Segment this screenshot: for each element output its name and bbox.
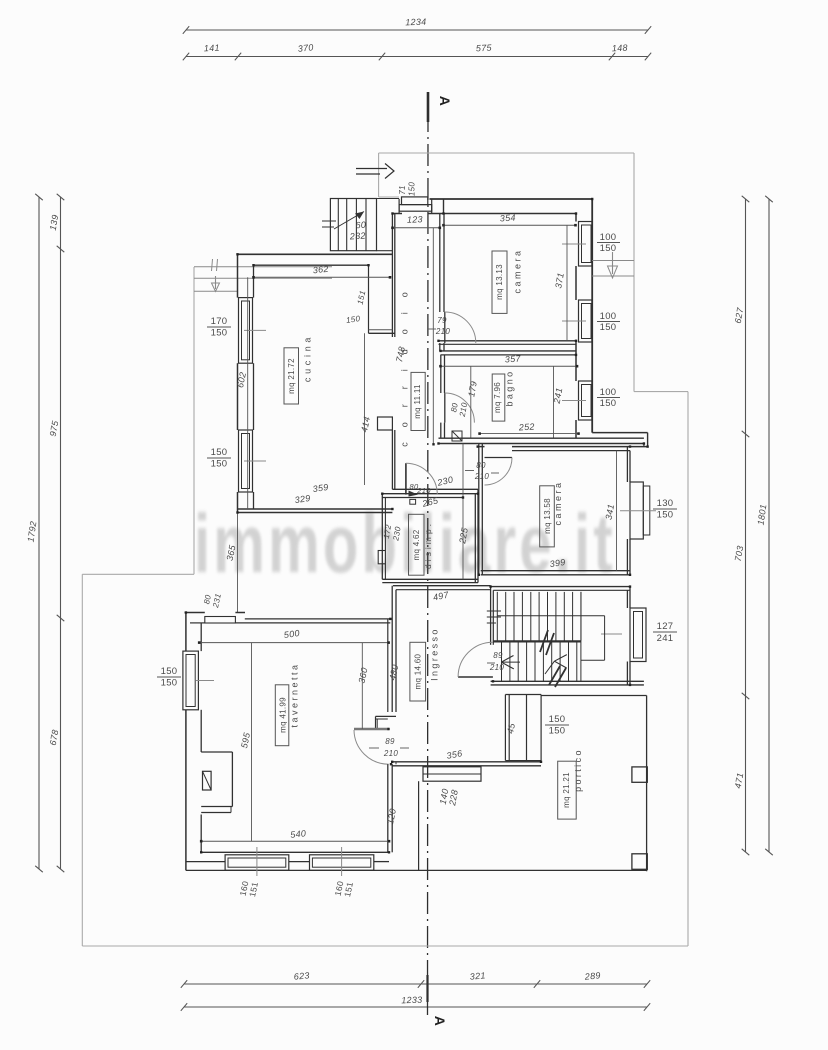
vent symbol bagno [452,431,462,441]
svg-text:170: 170 [211,316,228,327]
portico south edge [186,869,647,871]
dim line 357 bagno [439,365,578,368]
svg-text:1233: 1233 [401,995,423,1006]
window label 150/150 tavernetta [157,666,181,689]
svg-text:150: 150 [161,666,178,677]
wall bagno west [441,355,445,438]
svg-text:1234: 1234 [405,17,427,28]
dim line 360 tavernetta [361,643,363,729]
svg-text:414: 414 [359,416,372,434]
room box cucina [284,348,299,404]
svg-text:Ingresso: Ingresso [429,627,439,681]
wall ingresso north [393,586,491,590]
wall tavernetta west inner [200,623,202,852]
stairs well line h [497,615,604,617]
svg-text:A: A [437,96,453,106]
portico east edge [646,696,648,872]
stairs well line v2 [580,592,582,681]
portico pillar 2 [632,854,647,870]
svg-text:tavernetta: tavernetta [289,662,299,727]
svg-text:100: 100 [600,311,617,322]
svg-text:150: 150 [600,322,617,333]
portico pillar 1 [632,767,647,782]
wall passage stub [505,695,541,761]
svg-text:356: 356 [446,748,463,761]
downpipe arrow top-left [212,276,220,292]
wall camera2 west [479,444,483,575]
svg-text:mq 21.72: mq 21.72 [287,358,296,394]
property boundary entrance bottom [379,196,399,198]
door camera2 arc [485,458,513,486]
room box camera2 [540,486,555,547]
svg-text:703: 703 [733,545,746,562]
property boundary entrance left [378,153,380,197]
gronda line 3 top-left [194,290,237,292]
dim line 241 bagno [553,366,555,438]
svg-text:228: 228 [447,789,460,807]
svg-text:150: 150 [657,510,674,521]
window 100/150 bagno [562,381,592,420]
door ingresso-stairs leaf [458,676,493,678]
window label 100/150 (2) [597,311,620,333]
dim line 252 bagno [478,432,580,435]
outdoor stairs arrow [322,212,364,230]
door tavernetta leaf [354,728,389,731]
room box ingresso [410,642,426,701]
dimension line segments right (627/703/471) [742,196,750,855]
wall corridoio west line1 [391,214,393,490]
svg-text:80: 80 [476,461,486,470]
portico north edge [541,695,647,697]
dim line 365 [237,513,239,613]
wall north outer [430,198,593,200]
svg-text:371: 371 [553,272,566,289]
svg-text:252: 252 [518,421,536,432]
svg-text:151: 151 [342,881,355,898]
property boundary right upper [633,153,635,392]
gronda line 2 top-left [194,277,332,279]
property boundary west strip [193,267,195,574]
label 172/230 disimpegno [382,524,403,543]
wall disimpegno east [475,489,478,582]
wall camera1 south line1 [439,340,577,342]
wall camera2 north outer [478,446,648,448]
door label 89 tavernetta [369,737,409,748]
svg-text:975: 975 [48,419,61,437]
svg-text:360: 360 [357,667,370,685]
svg-text:241: 241 [552,387,565,405]
svg-text:141: 141 [204,43,220,54]
svg-text:321: 321 [469,970,486,981]
dim line 602 cucina [247,277,249,509]
svg-text:150: 150 [408,182,417,196]
svg-text:602: 602 [235,371,248,389]
door tavernetta 80/231 threshold [205,617,236,624]
wall cucina south line2 [238,512,393,514]
wall jamb porch right [431,199,433,214]
entrance arrow [356,164,394,179]
svg-text:mq 21.21: mq 21.21 [562,772,571,808]
window 160/151 tav south 2 [310,847,374,876]
door camera2 leaf [485,457,513,459]
door disimpegno hinge mark [409,491,419,497]
stairs arrow up-left [501,656,520,669]
svg-text:230: 230 [435,474,454,488]
svg-text:148: 148 [612,43,628,54]
wall bagno SE jamb [644,433,648,447]
window label 150/150 cucina [207,447,231,470]
svg-text:150: 150 [549,714,566,725]
room box tavernetta [275,685,289,746]
stairs arrow up-right [545,655,567,674]
door tavernetta jog [376,716,397,728]
wall bagno south outer [592,432,647,434]
svg-text:mq 13.58: mq 13.58 [543,498,552,534]
svg-text:540: 540 [290,828,307,840]
window 100/150 camera1 lower [562,300,592,342]
svg-text:595: 595 [239,731,252,749]
wall stairs east [627,587,630,685]
wall tavernetta north inner1 [245,618,390,620]
dim line 540 tavernetta [200,840,390,843]
wall ingresso west lower [388,762,396,853]
window 130/150 camera2 [620,482,656,539]
stairs upper flight treads [497,592,581,641]
svg-text:79: 79 [437,316,447,325]
svg-text:231: 231 [211,593,223,610]
wall camera1 south line2 [439,343,577,345]
dim line 354 camera1 [442,224,577,227]
wall east inner [575,214,577,439]
svg-text:500: 500 [283,628,300,640]
wall corridoio west line2 [394,214,396,490]
wall bagno north line2 [441,354,577,356]
flue bump cucina SE [378,417,393,430]
dim line 595 tavernetta [251,643,253,842]
svg-text:disimp.: disimp. [423,521,433,569]
svg-text:575: 575 [476,43,493,54]
svg-text:100: 100 [600,387,617,398]
svg-text:151: 151 [247,881,260,898]
svg-text:370: 370 [297,42,314,54]
dim line 414 [364,333,366,485]
svg-text:mq 14.60: mq 14.60 [414,653,423,689]
dim line 748 corridoio [432,228,434,444]
svg-text:210: 210 [474,472,489,481]
dim line 371 camera1 [566,225,568,341]
svg-text:130: 130 [657,498,674,509]
window label 170/150 [207,316,231,339]
svg-text:150: 150 [211,447,228,458]
wall disimpegno west notch [378,551,385,564]
svg-text:150: 150 [549,726,566,737]
svg-text:127: 127 [657,621,674,632]
wall corridoio east line2 [443,214,445,352]
svg-text:mq 7.96: mq 7.96 [493,382,502,413]
pipe mark top-left [212,259,218,271]
downpipe arrow east [608,252,618,278]
property boundary top [379,152,634,154]
svg-text:89: 89 [385,737,395,746]
svg-text:139: 139 [48,214,61,231]
stairs level marks [487,611,501,623]
wall cucina west inner [253,265,255,509]
svg-text:150: 150 [600,243,617,254]
svg-text:210: 210 [458,402,470,419]
svg-text:mq 41.99: mq 41.99 [279,697,288,733]
room box corridoio [411,372,425,430]
wall junction dots [185,198,649,854]
section line thick end bottom [426,975,428,1002]
wall disimpegno north line2 [382,493,478,495]
entrance porch steps [399,197,432,211]
dimension line segments bottom (623/321/289) [181,980,650,988]
door ingresso-stairs arc [458,642,493,677]
property boundary left [81,574,83,946]
svg-text:354: 354 [500,212,517,223]
svg-text:623: 623 [293,970,310,981]
wall disimpegno north line3 [382,497,463,499]
wall cucina south line1 [238,508,393,510]
window label 160/151 (2) [333,880,355,898]
svg-text:150: 150 [161,678,178,689]
window label 130/150 [653,498,677,521]
window 160/151 tav south 1 [225,847,289,876]
gronda line east 2 [592,275,634,277]
room box portico [558,761,577,819]
stairs mid line [493,640,581,642]
window 150/150 tavernetta [183,651,214,710]
svg-text:471: 471 [733,772,746,789]
door camera2 label 80 [465,461,486,471]
stairs break marks lower [549,666,566,687]
window 127/241 stairs [601,608,646,662]
svg-text:100: 100 [600,232,617,243]
svg-text:45: 45 [505,721,517,734]
svg-text:mq 11.11: mq 11.11 [413,384,422,419]
gronda line 1 top-left [194,266,332,268]
wall ingresso south [392,762,541,766]
wall tavernetta south outer [186,861,389,863]
wall tavernetta west outer [185,613,187,871]
svg-text:480: 480 [387,664,400,682]
dim line 500 tavernetta [198,641,390,644]
wall north inner east of door [428,213,577,215]
door camera1 leaf [444,312,446,343]
dimension line segments top (141/370/575/148) [183,53,651,61]
svg-text:151: 151 [356,290,368,306]
svg-text:60: 60 [355,220,366,231]
wall cucina west outer [237,254,239,512]
wall tavernetta south inner [201,851,389,853]
dimension line total 1233 (bottom) [181,1003,650,1011]
property boundary step [634,391,688,393]
property boundary left step [82,573,194,575]
wall jamb porch left [398,199,400,214]
stairs well line v [604,616,606,661]
svg-text:150: 150 [211,459,228,470]
room box bagno [492,374,505,421]
wall stairs west [491,587,494,645]
svg-text:portico: portico [573,748,583,792]
wall bagno north line1 [441,350,577,352]
dim line 123 corridoio [391,227,441,230]
svg-text:362: 362 [312,264,329,276]
wall tavernetta north inner2 [190,622,390,624]
room box disimpegno [409,514,425,575]
svg-text:mq 4.62: mq 4.62 [412,529,421,560]
stairs well line h2 [581,659,605,661]
gronda line east 1 [592,260,634,262]
svg-text:123: 123 [407,214,423,225]
stairs break marks upper [540,630,554,655]
ingresso entry step [423,767,481,781]
dimension line segments left (139/975/678) [57,194,65,872]
svg-text:71: 71 [398,185,407,195]
svg-text:89: 89 [493,651,503,660]
window 150/150 cucina [239,430,267,492]
wall camera2 south [481,571,630,575]
svg-text:mq 13.13: mq 13.13 [495,264,504,300]
wall stairs south [491,681,644,685]
svg-text:150: 150 [600,398,617,409]
property boundary bottom [82,945,688,947]
svg-text:678: 678 [48,729,61,746]
svg-text:1792: 1792 [26,520,39,542]
svg-text:289: 289 [583,970,601,981]
svg-text:150: 150 [345,314,361,325]
door tavernetta arc [354,730,389,764]
property boundary right lower [687,392,689,946]
fireplace niche [201,752,232,813]
window 100/150 camera1 upper [562,222,592,267]
wall camera2 north inner [512,450,630,452]
svg-text:150: 150 [211,328,228,339]
wall jamb camera NW [443,199,445,214]
wall cucina north inner [254,264,369,266]
svg-text:179: 179 [466,380,479,397]
window 170/150 cucina [239,298,267,364]
wall east outer [591,199,593,433]
door corridoio-disimpegno leaf [405,463,407,494]
window label 100/150 (1) [597,232,620,254]
svg-text:232: 232 [349,230,367,241]
svg-text:camera: camera [513,248,523,293]
svg-text:cucina: cucina [303,334,313,382]
svg-text:bagno: bagno [505,369,515,406]
closet cucina [369,265,395,333]
dim line 341 camera2 [616,451,618,571]
door label 210 stairs [487,663,504,672]
wall disimpegno south [382,579,478,582]
outdoor stairs to entrance [330,199,399,251]
window label 127/241 [653,621,677,644]
wall bagno south line2 [439,443,644,445]
wall north inner west of door [393,213,403,215]
small rect disimpegno [410,499,416,504]
wall tavernetta north outer [185,612,245,614]
room box camera1 [492,251,507,313]
wall cucina north outer [237,253,393,255]
svg-text:241: 241 [657,633,674,644]
door bagno arc [445,393,475,423]
chimney symbol [203,771,212,790]
wall disimpegno north line1 [392,488,478,490]
wall ingresso west upper [388,586,396,712]
section line A-A (dash-dot) [427,110,430,1015]
dimension line total 1801 (right) [765,196,773,855]
svg-text:210: 210 [416,486,431,495]
dimension line total 1792 (left) [35,194,43,872]
wall disimpegno west [382,494,385,580]
dim line 179 bagno [470,366,472,438]
svg-text:359: 359 [312,482,329,494]
portico west edge [418,781,420,870]
door camera2 label 210 [474,472,499,481]
svg-text:357: 357 [505,353,522,364]
window label 150/150 portico [545,714,569,737]
door camera1 label 210 [428,327,450,336]
window label 160/151 (1) [238,880,260,898]
svg-text:120: 120 [385,808,398,826]
dim line 362 cucina [252,276,391,279]
svg-text:A: A [432,1016,448,1026]
wall stairs north [491,587,630,591]
svg-text:497: 497 [432,589,450,602]
svg-text:210: 210 [435,327,450,336]
svg-text:210: 210 [489,663,504,672]
svg-text:1801: 1801 [756,503,769,525]
door corridoio-disimpegno arc [406,463,437,494]
wall corridoio east line1 [439,214,441,352]
svg-text:210: 210 [383,749,398,758]
dimension line total 1234 (top) [183,26,651,34]
wall bagno south line1 [439,437,644,439]
section line thick end top [427,92,430,122]
wall camera2 east [627,447,630,575]
door camera1 arc [445,312,476,343]
door bagno leaf [444,393,446,423]
svg-text:627: 627 [733,306,746,324]
stairs lower flight treads [502,643,577,682]
dim line 225 disimpegno [462,444,464,580]
window label 100/150 (3) [597,387,620,409]
